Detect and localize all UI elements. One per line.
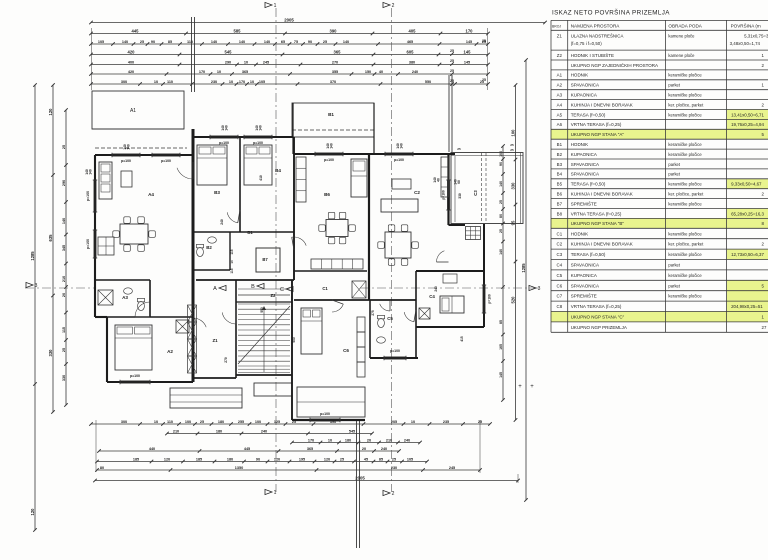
svg-text:B8: B8 bbox=[557, 211, 563, 216]
svg-text:330: 330 bbox=[510, 182, 515, 190]
svg-text:145: 145 bbox=[499, 372, 503, 378]
svg-text:C5: C5 bbox=[557, 273, 563, 278]
svg-text:520: 520 bbox=[510, 296, 515, 304]
svg-text:365: 365 bbox=[242, 70, 248, 74]
svg-text:230: 230 bbox=[211, 80, 217, 84]
svg-text:A3: A3 bbox=[122, 295, 128, 300]
svg-text:180: 180 bbox=[345, 438, 351, 442]
svg-text:p=100: p=100 bbox=[121, 159, 131, 163]
svg-text:parket: parket bbox=[668, 283, 680, 288]
svg-text:p=100: p=100 bbox=[130, 374, 140, 378]
svg-text:330: 330 bbox=[62, 375, 66, 381]
svg-text:p=100: p=100 bbox=[442, 190, 446, 200]
svg-text:60: 60 bbox=[457, 180, 461, 184]
svg-text:170: 170 bbox=[466, 28, 474, 33]
svg-text:125: 125 bbox=[274, 420, 280, 424]
svg-text:170: 170 bbox=[199, 70, 205, 74]
svg-text:180: 180 bbox=[227, 457, 233, 461]
svg-text:p=100: p=100 bbox=[253, 141, 263, 145]
svg-text:27: 27 bbox=[762, 325, 767, 330]
svg-text:1285: 1285 bbox=[30, 251, 35, 261]
svg-text:C2: C2 bbox=[557, 242, 563, 247]
svg-text:110: 110 bbox=[167, 420, 173, 424]
svg-text:p=100: p=100 bbox=[86, 239, 90, 249]
svg-text:B2: B2 bbox=[557, 152, 563, 157]
svg-text:kamene ploče: kamene ploče bbox=[668, 53, 695, 58]
svg-text:140: 140 bbox=[400, 143, 404, 149]
svg-text:KUHINJA I DNEVNI BORAVAK: KUHINJA I DNEVNI BORAVAK bbox=[571, 242, 633, 247]
svg-text:C6: C6 bbox=[557, 283, 563, 288]
svg-text:300: 300 bbox=[121, 420, 127, 424]
svg-text:10: 10 bbox=[229, 80, 233, 84]
svg-text:10: 10 bbox=[244, 60, 248, 64]
svg-text:A1: A1 bbox=[130, 108, 136, 114]
svg-text:65: 65 bbox=[281, 40, 285, 44]
svg-text:A1: A1 bbox=[557, 73, 563, 78]
svg-text:keramičke pločice: keramičke pločice bbox=[668, 294, 702, 299]
svg-text:90: 90 bbox=[151, 40, 155, 44]
svg-text:parket: parket bbox=[668, 263, 680, 268]
svg-text:110: 110 bbox=[167, 80, 173, 84]
svg-text:C6: C6 bbox=[343, 348, 349, 353]
svg-text:KUPAONICA: KUPAONICA bbox=[571, 152, 597, 157]
svg-text:UKUPNO NGP PRIZEMLJA: UKUPNO NGP PRIZEMLJA bbox=[571, 325, 627, 330]
svg-text:20: 20 bbox=[367, 438, 371, 442]
svg-text:25: 25 bbox=[140, 40, 144, 44]
svg-text:25: 25 bbox=[340, 457, 344, 461]
svg-text:C7: C7 bbox=[557, 294, 563, 299]
svg-text:SPAVAONICA: SPAVAONICA bbox=[571, 263, 599, 268]
svg-text:100: 100 bbox=[510, 129, 515, 137]
svg-text:345: 345 bbox=[62, 245, 66, 251]
svg-text:A5: A5 bbox=[557, 112, 563, 117]
svg-text:KUPAONICA: KUPAONICA bbox=[571, 92, 597, 97]
svg-text:330: 330 bbox=[48, 349, 53, 357]
svg-text:140: 140 bbox=[89, 169, 93, 175]
svg-text:170: 170 bbox=[308, 438, 314, 442]
svg-text:VRTNA TERASA (f=0,25): VRTNA TERASA (f=0,25) bbox=[571, 122, 622, 127]
svg-text:(f=0,75 i f=0,50): (f=0,75 i f=0,50) bbox=[571, 41, 603, 46]
svg-text:B4: B4 bbox=[275, 168, 281, 173]
svg-text:100: 100 bbox=[185, 420, 191, 424]
svg-text:240: 240 bbox=[404, 438, 410, 442]
svg-text:p=100: p=100 bbox=[324, 158, 334, 162]
svg-text:75: 75 bbox=[294, 40, 298, 44]
svg-text:A2: A2 bbox=[167, 349, 173, 354]
svg-text:420: 420 bbox=[128, 49, 136, 54]
svg-text:BROJ: BROJ bbox=[552, 24, 561, 28]
svg-text:UKUPNO NGP ZAJEDNIČKIH PROSTOR: UKUPNO NGP ZAJEDNIČKIH PROSTORA bbox=[571, 62, 658, 68]
svg-text:605: 605 bbox=[407, 49, 415, 54]
svg-text:13,41x0,50=6,71: 13,41x0,50=6,71 bbox=[731, 112, 764, 117]
svg-text:NAMJENA PROSTORA: NAMJENA PROSTORA bbox=[571, 23, 621, 28]
svg-text:B2: B2 bbox=[206, 245, 212, 250]
svg-text:245: 245 bbox=[263, 60, 269, 64]
svg-text:275: 275 bbox=[371, 310, 375, 316]
svg-text:1: 1 bbox=[762, 53, 765, 58]
svg-text:B7: B7 bbox=[262, 257, 268, 262]
svg-text:140: 140 bbox=[225, 125, 229, 131]
svg-text:240: 240 bbox=[412, 70, 418, 74]
svg-text:SPREMIŠTE: SPREMIŠTE bbox=[571, 293, 597, 299]
svg-text:140: 140 bbox=[127, 144, 131, 150]
svg-text:SPAVAONICA: SPAVAONICA bbox=[571, 83, 599, 88]
svg-text:240: 240 bbox=[381, 447, 387, 451]
svg-text:2: 2 bbox=[762, 63, 765, 68]
svg-text:parket: parket bbox=[668, 172, 680, 177]
svg-text:25: 25 bbox=[510, 143, 514, 147]
svg-text:115: 115 bbox=[230, 268, 234, 273]
svg-text:keramičke pločice: keramičke pločice bbox=[668, 142, 702, 147]
svg-text:25: 25 bbox=[499, 229, 503, 233]
svg-text:90: 90 bbox=[308, 40, 312, 44]
svg-text:Z2: Z2 bbox=[557, 53, 563, 58]
svg-text:2: 2 bbox=[762, 191, 765, 196]
svg-text:585: 585 bbox=[234, 28, 242, 33]
svg-text:p=100: p=100 bbox=[488, 294, 492, 304]
svg-text:240: 240 bbox=[434, 286, 438, 292]
svg-text:10: 10 bbox=[217, 70, 221, 74]
svg-text:C5: C5 bbox=[387, 316, 393, 321]
svg-text:140: 140 bbox=[211, 40, 217, 44]
svg-text:65,28x0,25=16,3: 65,28x0,25=16,3 bbox=[731, 211, 764, 216]
svg-text:p=100: p=100 bbox=[86, 191, 90, 201]
svg-text:25: 25 bbox=[392, 457, 396, 461]
svg-text:110: 110 bbox=[187, 40, 193, 44]
svg-text:120: 120 bbox=[30, 508, 35, 516]
svg-text:ker. pločice, parket: ker. pločice, parket bbox=[668, 191, 704, 196]
svg-text:25: 25 bbox=[323, 40, 327, 44]
svg-text:keramičke pločice: keramičke pločice bbox=[668, 152, 702, 157]
svg-text:2005: 2005 bbox=[284, 17, 294, 22]
svg-text:270: 270 bbox=[224, 357, 228, 363]
svg-text:p=100: p=100 bbox=[219, 141, 229, 145]
svg-text:C1: C1 bbox=[322, 286, 328, 291]
svg-text:100: 100 bbox=[499, 151, 503, 157]
svg-text:B4: B4 bbox=[557, 172, 563, 177]
svg-text:ULAZNA NADSTREŠNICA: ULAZNA NADSTREŠNICA bbox=[571, 33, 624, 38]
svg-text:140: 140 bbox=[62, 218, 66, 224]
svg-text:B5: B5 bbox=[557, 182, 563, 187]
svg-text:330: 330 bbox=[458, 193, 462, 199]
svg-text:A6: A6 bbox=[557, 122, 563, 127]
svg-text:635: 635 bbox=[48, 234, 53, 242]
svg-text:195: 195 bbox=[299, 457, 305, 461]
svg-text:105: 105 bbox=[259, 80, 265, 84]
svg-text:3,48x0,50=1,74: 3,48x0,50=1,74 bbox=[730, 41, 761, 46]
svg-text:180: 180 bbox=[216, 429, 222, 433]
svg-text:B3: B3 bbox=[214, 190, 220, 195]
svg-text:10: 10 bbox=[230, 260, 234, 264]
svg-text:keramičke pločice: keramičke pločice bbox=[668, 252, 702, 257]
svg-text:C1: C1 bbox=[557, 231, 563, 236]
svg-text:Z1: Z1 bbox=[557, 33, 563, 38]
svg-text:20: 20 bbox=[62, 293, 66, 297]
svg-text:150: 150 bbox=[365, 70, 371, 74]
svg-text:465: 465 bbox=[407, 40, 413, 44]
svg-text:A: A bbox=[213, 286, 217, 292]
svg-text:120: 120 bbox=[324, 457, 330, 461]
svg-text:140: 140 bbox=[343, 40, 349, 44]
svg-text:120: 120 bbox=[274, 457, 280, 461]
svg-text:270: 270 bbox=[332, 60, 338, 64]
svg-text:10: 10 bbox=[154, 80, 158, 84]
svg-text:A4: A4 bbox=[557, 102, 563, 107]
svg-text:3: 3 bbox=[35, 283, 38, 289]
svg-text:Z2: Z2 bbox=[270, 293, 276, 298]
svg-text:SPREMIŠTE: SPREMIŠTE bbox=[571, 200, 597, 206]
svg-text:parket: parket bbox=[668, 83, 680, 88]
svg-text:40: 40 bbox=[379, 70, 383, 74]
svg-text:210: 210 bbox=[62, 276, 66, 282]
svg-text:25: 25 bbox=[499, 200, 503, 204]
svg-text:400: 400 bbox=[128, 60, 134, 64]
svg-text:550: 550 bbox=[260, 307, 264, 313]
svg-text:1: 1 bbox=[274, 490, 277, 496]
svg-text:145: 145 bbox=[464, 49, 472, 54]
svg-text:25: 25 bbox=[482, 78, 486, 82]
svg-text:B1: B1 bbox=[328, 112, 334, 117]
svg-text:145: 145 bbox=[464, 60, 470, 64]
svg-text:10: 10 bbox=[411, 420, 415, 424]
svg-text:120: 120 bbox=[48, 108, 53, 116]
svg-text:245: 245 bbox=[449, 466, 455, 470]
svg-text:p=100: p=100 bbox=[320, 412, 330, 416]
svg-text:ker. pločice, parket: ker. pločice, parket bbox=[668, 102, 704, 107]
svg-text:keramičke pločice: keramičke pločice bbox=[668, 182, 702, 187]
svg-text:185: 185 bbox=[133, 457, 139, 461]
svg-text:kamene ploče: kamene ploče bbox=[668, 33, 695, 38]
svg-text:B1: B1 bbox=[247, 230, 253, 235]
svg-text:95: 95 bbox=[510, 220, 515, 225]
svg-text:keramičke pločice: keramičke pločice bbox=[668, 273, 702, 278]
svg-text:9,33x0,50=4,67: 9,33x0,50=4,67 bbox=[731, 182, 762, 187]
svg-text:C4: C4 bbox=[429, 294, 435, 299]
svg-text:ker. pločice, parket: ker. pločice, parket bbox=[668, 242, 704, 247]
svg-text:25: 25 bbox=[457, 147, 461, 151]
svg-text:545: 545 bbox=[349, 429, 355, 433]
svg-text:1: 1 bbox=[762, 83, 765, 88]
svg-text:B1: B1 bbox=[557, 142, 563, 147]
svg-text:25: 25 bbox=[510, 148, 514, 152]
svg-text:365: 365 bbox=[307, 447, 313, 451]
svg-text:545: 545 bbox=[225, 49, 233, 54]
svg-text:keramičke pločice: keramičke pločice bbox=[668, 201, 702, 206]
svg-text:C2: C2 bbox=[414, 190, 420, 195]
svg-text:25: 25 bbox=[62, 145, 66, 149]
svg-text:SPAVAONICA: SPAVAONICA bbox=[571, 172, 599, 177]
svg-text:B6: B6 bbox=[557, 191, 563, 196]
svg-text:1350: 1350 bbox=[235, 466, 243, 470]
svg-text:235: 235 bbox=[443, 420, 449, 424]
svg-text:420: 420 bbox=[128, 70, 134, 74]
svg-text:240: 240 bbox=[220, 219, 224, 225]
svg-text:p=100: p=100 bbox=[161, 159, 171, 163]
svg-text:115: 115 bbox=[62, 327, 66, 333]
svg-text:UKUPNO NGP STANA "B": UKUPNO NGP STANA "B" bbox=[571, 221, 625, 226]
svg-text:140: 140 bbox=[499, 249, 503, 255]
svg-text:1285: 1285 bbox=[521, 263, 526, 273]
svg-text:550: 550 bbox=[425, 80, 431, 84]
svg-text:C3: C3 bbox=[473, 190, 478, 196]
svg-text:290: 290 bbox=[225, 60, 231, 64]
svg-text:105: 105 bbox=[98, 40, 104, 44]
svg-text:410: 410 bbox=[259, 175, 263, 181]
svg-text:C3: C3 bbox=[557, 252, 563, 257]
svg-text:p=100: p=100 bbox=[390, 349, 400, 353]
svg-text:TERASA (f=0,50): TERASA (f=0,50) bbox=[571, 112, 606, 117]
svg-text:115: 115 bbox=[230, 249, 234, 254]
svg-text:100: 100 bbox=[255, 420, 261, 424]
svg-text:105: 105 bbox=[407, 457, 413, 461]
svg-text:3: 3 bbox=[538, 286, 541, 292]
svg-text:210: 210 bbox=[386, 438, 392, 442]
svg-text:85: 85 bbox=[379, 457, 383, 461]
svg-text:HODNIK: HODNIK bbox=[571, 142, 589, 147]
svg-text:145: 145 bbox=[466, 40, 472, 44]
svg-text:140: 140 bbox=[264, 40, 270, 44]
svg-text:205: 205 bbox=[391, 420, 397, 424]
svg-text:C4: C4 bbox=[557, 263, 563, 268]
svg-text:C: C bbox=[280, 287, 284, 293]
svg-text:405: 405 bbox=[409, 28, 417, 33]
svg-text:OBRADA PODA: OBRADA PODA bbox=[668, 23, 702, 28]
svg-text:390: 390 bbox=[330, 28, 338, 33]
svg-text:10: 10 bbox=[250, 80, 254, 84]
svg-text:POVRŠINA (m: POVRŠINA (m bbox=[731, 22, 761, 28]
svg-text:C8: C8 bbox=[557, 304, 563, 309]
svg-text:Z1: Z1 bbox=[212, 338, 218, 343]
svg-text:90: 90 bbox=[499, 162, 503, 166]
svg-text:120: 120 bbox=[164, 457, 170, 461]
svg-text:2: 2 bbox=[392, 491, 395, 497]
svg-text:2: 2 bbox=[762, 102, 765, 107]
svg-text:HODNIK I STUBIŠTE: HODNIK I STUBIŠTE bbox=[571, 52, 614, 58]
svg-text:140: 140 bbox=[259, 125, 263, 131]
svg-text:2: 2 bbox=[392, 3, 395, 9]
svg-text:ISKAZ NETO POVRŠINA PRIZEMLJA: ISKAZ NETO POVRŠINA PRIZEMLJA bbox=[552, 8, 670, 17]
svg-text:40: 40 bbox=[437, 178, 441, 182]
svg-text:80: 80 bbox=[100, 466, 104, 470]
svg-text:85: 85 bbox=[168, 40, 172, 44]
svg-text:255: 255 bbox=[238, 420, 244, 424]
svg-text:25: 25 bbox=[482, 39, 486, 43]
svg-text:2: 2 bbox=[762, 242, 765, 247]
svg-text:45: 45 bbox=[364, 457, 368, 461]
svg-text:140: 140 bbox=[122, 40, 128, 44]
svg-text:415: 415 bbox=[460, 336, 464, 342]
svg-text:HODNIK: HODNIK bbox=[571, 231, 589, 236]
svg-text:365: 365 bbox=[334, 49, 342, 54]
svg-text:keramičke pločice: keramičke pločice bbox=[668, 73, 702, 78]
svg-text:300: 300 bbox=[121, 80, 127, 84]
svg-text:VRTNA TERASA (f=0,25): VRTNA TERASA (f=0,25) bbox=[571, 211, 622, 216]
svg-text:+: + bbox=[518, 384, 522, 390]
svg-text:170: 170 bbox=[239, 80, 245, 84]
svg-text:A4: A4 bbox=[148, 192, 154, 197]
svg-text:500: 500 bbox=[292, 337, 296, 343]
svg-text:355: 355 bbox=[332, 70, 338, 74]
svg-text:B6: B6 bbox=[324, 192, 330, 197]
svg-text:185: 185 bbox=[196, 457, 202, 461]
svg-text:440: 440 bbox=[149, 447, 155, 451]
svg-text:SPAVAONICA: SPAVAONICA bbox=[571, 283, 599, 288]
svg-text:p=100: p=100 bbox=[394, 158, 404, 162]
svg-text:180: 180 bbox=[218, 420, 224, 424]
svg-text:445: 445 bbox=[244, 447, 250, 451]
svg-text:B3: B3 bbox=[557, 162, 563, 167]
svg-text:290: 290 bbox=[62, 180, 66, 186]
svg-text:12,73x0,50=6,37: 12,73x0,50=6,37 bbox=[731, 252, 764, 257]
svg-text:370: 370 bbox=[330, 80, 336, 84]
svg-text:140: 140 bbox=[499, 181, 503, 187]
svg-text:keramičke pločice: keramičke pločice bbox=[668, 231, 702, 236]
svg-text:204,98x0,25=51: 204,98x0,25=51 bbox=[731, 304, 763, 309]
svg-text:TERASA (f=0,50): TERASA (f=0,50) bbox=[571, 252, 606, 257]
svg-text:UKUPNO NGP STANA "C": UKUPNO NGP STANA "C" bbox=[571, 315, 625, 320]
svg-text:25: 25 bbox=[200, 420, 204, 424]
svg-text:VRTNA TERASA (f=0,25): VRTNA TERASA (f=0,25) bbox=[571, 304, 622, 309]
svg-text:SPAVAONICA: SPAVAONICA bbox=[571, 162, 599, 167]
svg-text:A2: A2 bbox=[557, 83, 563, 88]
svg-text:10: 10 bbox=[154, 420, 158, 424]
svg-text:20: 20 bbox=[362, 447, 366, 451]
svg-text:keramičke pločice: keramičke pločice bbox=[668, 112, 702, 117]
svg-text:KUHINJA I DNEVNI BORAVAK: KUHINJA I DNEVNI BORAVAK bbox=[571, 102, 633, 107]
svg-text:1: 1 bbox=[274, 3, 277, 9]
svg-text:10: 10 bbox=[328, 438, 332, 442]
svg-text:240: 240 bbox=[261, 429, 267, 433]
svg-text:165: 165 bbox=[499, 344, 503, 350]
svg-text:keramičke pločice: keramičke pločice bbox=[668, 92, 702, 97]
svg-text:25: 25 bbox=[62, 348, 66, 352]
svg-text:B7: B7 bbox=[557, 201, 563, 206]
svg-text:+: + bbox=[530, 384, 534, 390]
svg-text:KUHINJA I DNEVNI BORAVAK: KUHINJA I DNEVNI BORAVAK bbox=[571, 191, 633, 196]
svg-text:UKUPNO NGP STANA "A": UKUPNO NGP STANA "A" bbox=[571, 132, 625, 137]
svg-text:parket: parket bbox=[668, 162, 680, 167]
svg-text:210: 210 bbox=[173, 429, 179, 433]
svg-text:19,76x0,25=4,94: 19,76x0,25=4,94 bbox=[731, 122, 764, 127]
svg-text:85: 85 bbox=[499, 320, 503, 324]
svg-text:5,31x0,75=3,98: 5,31x0,75=3,98 bbox=[744, 33, 768, 38]
svg-text:140: 140 bbox=[239, 40, 245, 44]
svg-text:380: 380 bbox=[409, 60, 415, 64]
svg-text:A3: A3 bbox=[557, 92, 563, 97]
svg-text:HODNIK: HODNIK bbox=[571, 73, 589, 78]
svg-text:80: 80 bbox=[499, 214, 503, 218]
svg-text:445: 445 bbox=[132, 28, 140, 33]
svg-text:TERASA (f=0,50): TERASA (f=0,50) bbox=[571, 182, 606, 187]
svg-text:KUPAONICA: KUPAONICA bbox=[571, 273, 597, 278]
svg-text:140: 140 bbox=[330, 143, 334, 149]
svg-text:90: 90 bbox=[256, 457, 260, 461]
